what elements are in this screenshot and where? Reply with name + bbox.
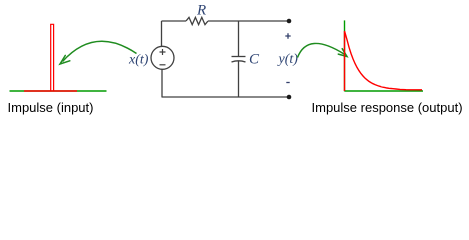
source U1 circle	[151, 46, 174, 69]
svg-text:Impulse response (output): Impulse response (output)	[312, 100, 463, 115]
right graph: vertical axis	[344, 20, 346, 91]
svg-text:Impulse (input): Impulse (input)	[8, 100, 94, 115]
right graph: time axis	[345, 90, 424, 92]
plus terminal label	[285, 33, 290, 38]
wire top	[162, 20, 290, 22]
impulse (narrow red pulse)	[51, 24, 54, 91]
wire left upper	[161, 21, 163, 46]
minus terminal label	[286, 82, 289, 84]
left graph: time axis	[10, 90, 107, 92]
arrow from y(t) to response	[298, 43, 345, 57]
svg-text:x(t): x(t)	[128, 53, 149, 68]
arrowhead right	[338, 49, 347, 57]
source plus	[160, 49, 166, 55]
capacitor C plates	[232, 56, 246, 58]
svg-text:C: C	[249, 52, 260, 68]
left graph: zero-level function line	[24, 90, 77, 92]
svg-text:y(t): y(t)	[277, 52, 299, 67]
arrow from x(t) to impulse	[63, 41, 137, 61]
impulse response curve	[345, 31, 423, 91]
capacitor lower lead	[238, 61, 240, 97]
terminal dot bottom	[287, 95, 292, 100]
terminal dot top	[287, 19, 292, 24]
capacitor upper lead	[238, 21, 240, 57]
resistor R	[186, 17, 208, 24]
source minus	[160, 64, 166, 66]
wire bottom	[162, 96, 290, 98]
arrowhead left	[60, 55, 70, 64]
svg-text:R: R	[196, 3, 206, 19]
wire left lower	[161, 69, 163, 97]
